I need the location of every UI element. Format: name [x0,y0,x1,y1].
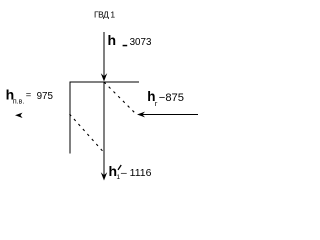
feedwater outlet arrowhead [15,113,23,118]
heating-steam arrowhead [137,112,145,118]
svg-text:3073: 3073 [130,37,152,48]
drain outlet arrowhead [101,172,107,180]
dashed steam path to right arrow [104,82,137,115]
drain label prime mark [118,165,121,170]
wire heating-steam from right [141,113,198,115]
wire drain vertical [103,82,105,176]
svg-text:=: = [26,89,32,100]
heater left wall [69,82,71,154]
svg-text:−875: −875 [159,92,184,104]
svg-text:г: г [155,99,158,108]
svg-text:h: h [108,32,117,48]
svg-text:– 1116: – 1116 [121,167,152,179]
dashed condensate path inside heater [70,114,104,152]
svg-text:975: 975 [37,91,54,102]
svg-text:п.в.: п.в. [13,98,24,105]
svg-text:1: 1 [116,174,120,181]
wire steam inlet shaft [103,32,105,78]
steam inlet arrowhead [101,73,107,81]
steam enthalpy subscript dash [123,45,128,47]
heater top wall [69,81,139,83]
svg-text:ГВД 1: ГВД 1 [94,10,115,20]
